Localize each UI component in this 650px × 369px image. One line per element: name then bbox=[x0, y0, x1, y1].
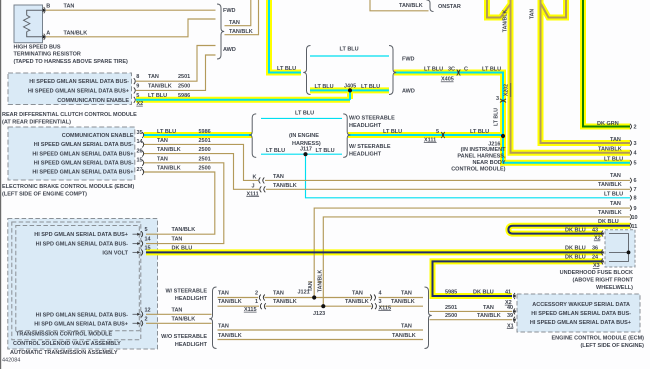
wire: TAN 2501 merged to ECM pin 40 bbox=[430, 310, 513, 312]
svg-text:2: 2 bbox=[255, 290, 258, 296]
svg-text:LT BLU: LT BLU bbox=[316, 148, 335, 154]
wire core: DK BLU 5985 from TCM pin 15 to fuse block pin 36 bbox=[146, 251, 602, 253]
wire: TAN 2501 from rear differential module pin 8 (AWD) bbox=[136, 46, 216, 82]
svg-text:HI SPD GMLAN SERIAL DATA BUS-: HI SPD GMLAN SERIAL DATA BUS- bbox=[36, 242, 129, 248]
connector X115 left, pin 1 bbox=[260, 303, 262, 309]
brace: ONSTAR stub end bbox=[427, 0, 434, 12]
svg-text:REAR DIFFERENTIAL CLUTCH CONTR: REAR DIFFERENTIAL CLUTCH CONTROL MODULE bbox=[2, 112, 137, 118]
svg-text:2500: 2500 bbox=[199, 166, 211, 172]
pin arrow: EBCM pin 27 bbox=[142, 169, 144, 175]
svg-text:9: 9 bbox=[634, 206, 637, 212]
pin arrow: EBCM pin 26 bbox=[142, 151, 144, 157]
svg-text:HI SPEED GMLAN SERIAL DATA BUS: HI SPEED GMLAN SERIAL DATA BUS+ bbox=[32, 170, 133, 176]
svg-text:27: 27 bbox=[137, 167, 143, 173]
svg-text:(LEFT SIDE OF ENGINE COMPT): (LEFT SIDE OF ENGINE COMPT) bbox=[2, 191, 87, 197]
svg-text:W/ STEERABLE: W/ STEERABLE bbox=[165, 289, 207, 295]
svg-text:36: 36 bbox=[592, 245, 598, 251]
wire: TAN from terminating resistor pin B to variant brace bbox=[46, 9, 216, 11]
svg-text:2500: 2500 bbox=[199, 147, 211, 153]
pin arrow: EBCM pin 35 bbox=[142, 132, 144, 138]
pin arrow: rear differential module pin 9 bbox=[134, 87, 136, 93]
svg-text:1: 1 bbox=[255, 299, 258, 305]
svg-text:HEADLIGHT: HEADLIGHT bbox=[175, 342, 208, 348]
svg-text:TAN: TAN bbox=[401, 323, 412, 329]
svg-text:12: 12 bbox=[145, 307, 151, 313]
svg-text:TAN/BLK: TAN/BLK bbox=[598, 210, 622, 216]
svg-text:2501: 2501 bbox=[199, 138, 211, 144]
svg-text:DK BLU: DK BLU bbox=[565, 254, 586, 260]
svg-text:DK GRN: DK GRN bbox=[597, 121, 619, 127]
svg-text:2500: 2500 bbox=[445, 313, 457, 319]
wire: EBCM pin 14 TAN 2501 to connector X111 pin K bbox=[144, 144, 258, 180]
svg-text:5986: 5986 bbox=[199, 129, 211, 135]
splice J123 bbox=[321, 304, 325, 308]
svg-text:LT BLU: LT BLU bbox=[148, 93, 167, 99]
svg-text:3: 3 bbox=[496, 96, 499, 102]
svg-text:TAN: TAN bbox=[483, 305, 494, 311]
svg-text:HEADLIGHT: HEADLIGHT bbox=[349, 123, 382, 129]
svg-text:TAN/BLK: TAN/BLK bbox=[392, 333, 416, 339]
svg-text:TAN: TAN bbox=[610, 173, 621, 179]
svg-text:TAN: TAN bbox=[530, 9, 536, 20]
svg-text:TAN/BLK: TAN/BLK bbox=[391, 299, 415, 305]
svg-text:TAN: TAN bbox=[610, 201, 621, 207]
svg-text:(TAPED TO HARNESS ABOVE SPARE: (TAPED TO HARNESS ABOVE SPARE TIRE) bbox=[14, 59, 129, 65]
svg-text:2: 2 bbox=[145, 316, 148, 322]
svg-text:9: 9 bbox=[136, 83, 139, 89]
wire core: LT BLU from variant brace through X405 / X202 to J216 bbox=[394, 73, 503, 137]
wire: TAN w/steerable row through X115 with J121 splice bbox=[218, 297, 259, 299]
svg-text:15: 15 bbox=[145, 245, 151, 251]
pin arrow: fuse block pin 43 bbox=[602, 233, 605, 235]
svg-text:TAN: TAN bbox=[157, 138, 168, 144]
svg-text:HI SPD GMLAN SERIAL DATA BUS+: HI SPD GMLAN SERIAL DATA BUS+ bbox=[34, 321, 128, 327]
splice J216 bbox=[501, 134, 505, 138]
svg-text:LT BLU: LT BLU bbox=[604, 192, 623, 198]
brace: headlight variant group left (TAN pair) bbox=[209, 287, 216, 349]
svg-text:TAN: TAN bbox=[64, 4, 75, 10]
svg-text:TRANSMISSION CONTROL MODULE: TRANSMISSION CONTROL MODULE bbox=[16, 332, 112, 338]
svg-text:FWD: FWD bbox=[402, 57, 415, 63]
svg-text:J: J bbox=[251, 183, 254, 189]
svg-text:7: 7 bbox=[634, 187, 637, 193]
svg-text:HI SPD GMLAN SERIAL DATA BUS-: HI SPD GMLAN SERIAL DATA BUS- bbox=[36, 312, 129, 318]
highlight band: DK GRN vertical to pin 2 bbox=[583, 0, 630, 127]
svg-text:5: 5 bbox=[634, 161, 637, 167]
wire: TAN/BLK pin 10 run with drop to J123 splice bbox=[323, 217, 630, 306]
highlight band: TAN vertical from top to pin 3 bbox=[541, 0, 631, 143]
tick mark on TAN drop bbox=[308, 281, 312, 283]
svg-text:2: 2 bbox=[634, 125, 637, 131]
svg-text:TAN/BLK: TAN/BLK bbox=[229, 29, 253, 35]
svg-text:J405: J405 bbox=[344, 84, 356, 90]
svg-text:COMMUNICATION ENABLE: COMMUNICATION ENABLE bbox=[62, 133, 134, 139]
svg-text:LT BLU: LT BLU bbox=[470, 129, 489, 135]
connector X115 left, pin 2 bbox=[259, 295, 261, 301]
svg-text:TAN/BLK: TAN/BLK bbox=[317, 270, 323, 293]
svg-text:TAN/BLK: TAN/BLK bbox=[172, 316, 196, 322]
svg-text:X202: X202 bbox=[504, 84, 510, 96]
wire: EBCM pin 27 TAN/BLK 2500 down to TCM pin 5 bbox=[144, 172, 215, 234]
wire: TCM pin 12 TAN to headlight-variant brace bbox=[146, 313, 212, 315]
svg-text:HEADLIGHT: HEADLIGHT bbox=[349, 152, 382, 158]
svg-text:CONTROL MODULE): CONTROL MODULE) bbox=[451, 167, 505, 173]
svg-text:HI SPEED GMLAN SERIAL DATA BUS: HI SPEED GMLAN SERIAL DATA BUS+ bbox=[530, 320, 631, 326]
svg-text:(LEFT SIDE OF ENGINE): (LEFT SIDE OF ENGINE) bbox=[580, 343, 644, 349]
svg-text:TAN/BLK: TAN/BLK bbox=[172, 227, 196, 233]
svg-text:AWD: AWD bbox=[223, 47, 236, 53]
svg-text:W/O STEERABLE: W/O STEERABLE bbox=[349, 116, 395, 122]
svg-text:(ABOVE RIGHT FRONT: (ABOVE RIGHT FRONT bbox=[573, 278, 634, 284]
svg-text:8: 8 bbox=[136, 74, 139, 80]
svg-text:HI SPEED GMLAN SERIAL DATA BUS: HI SPEED GMLAN SERIAL DATA BUS- bbox=[531, 311, 631, 317]
highlight band: TAN/BLK vertical from top (ONSTAR area) to pin 4 bbox=[487, 0, 511, 18]
svg-text:B: B bbox=[46, 4, 50, 10]
svg-text:LT BLU: LT BLU bbox=[424, 66, 443, 72]
highlight band: LT BLU 5986 run from EBCM pin 35 bbox=[144, 132, 252, 138]
svg-text:ONSTAR: ONSTAR bbox=[438, 4, 461, 10]
svg-text:ELECTRONIC BRAKE CONTROL MODUL: ELECTRONIC BRAKE CONTROL MODULE (EBCM) bbox=[2, 184, 134, 190]
wire: TAN/BLK 2500 from rear differential module pin 9 (AWD) bbox=[136, 55, 216, 90]
wire: LT BLU W/O steerable branch bbox=[261, 117, 342, 119]
wire core: DK BLU from fuse block pin 24 down to ECM pin 41 bbox=[433, 261, 603, 296]
svg-text:J123: J123 bbox=[313, 311, 325, 317]
highlight band: LT BLU J405 splice branch and 5986 run to rear differential module bbox=[310, 87, 389, 93]
wire: TCM pin 2 TAN/BLK to headlight-variant brace bbox=[146, 322, 212, 324]
pin arrow: rear differential module pin 8 bbox=[134, 78, 136, 84]
svg-text:39: 39 bbox=[507, 313, 513, 319]
pin end mark: right edge pin 6 bbox=[630, 178, 632, 183]
svg-text:TAN/BLK: TAN/BLK bbox=[598, 182, 622, 188]
svg-text:FWD: FWD bbox=[223, 8, 236, 14]
svg-text:LT BLU: LT BLU bbox=[383, 129, 402, 135]
svg-text:NEAR BODY: NEAR BODY bbox=[472, 160, 505, 166]
connector X202 pin 3 bbox=[500, 99, 506, 101]
wire: TAN/BLK stub to ONSTAR brace bbox=[370, 0, 429, 11]
svg-text:2500: 2500 bbox=[178, 83, 190, 89]
splice J117 bbox=[303, 152, 307, 156]
svg-text:15: 15 bbox=[137, 158, 143, 164]
svg-text:TAN/BLK: TAN/BLK bbox=[503, 10, 509, 33]
svg-text:(IN ENGINE: (IN ENGINE bbox=[289, 133, 319, 139]
svg-text:DK BLU: DK BLU bbox=[172, 245, 193, 251]
module box: rear differential clutch control module bbox=[8, 73, 132, 105]
svg-text:TAN: TAN bbox=[610, 137, 621, 143]
svg-text:TAN: TAN bbox=[308, 281, 314, 292]
svg-text:LT BLU: LT BLU bbox=[315, 84, 334, 90]
svg-text:3: 3 bbox=[634, 141, 637, 147]
svg-text:14: 14 bbox=[145, 237, 152, 243]
wire: LT BLU from J117 splice down and right to pin 8 bbox=[306, 154, 631, 198]
wire core: LT BLU vertical from top to J405 variant brace bbox=[269, 0, 301, 73]
tick mark on TAN/BLK drop bbox=[318, 281, 322, 283]
svg-text:A: A bbox=[46, 30, 50, 36]
pin end mark: right edge pin 7 bbox=[630, 187, 632, 192]
svg-text:LT BLU: LT BLU bbox=[157, 129, 176, 135]
pin end mark: right edge pin 5 bbox=[630, 160, 632, 165]
svg-text:AUTOMATIC TRANSMISSION ASSEMBL: AUTOMATIC TRANSMISSION ASSEMBLY bbox=[10, 350, 118, 356]
connector X115 right, pin 4 bbox=[370, 295, 372, 301]
svg-text:TAN: TAN bbox=[218, 290, 229, 296]
svg-text:W/O STEERABLE: W/O STEERABLE bbox=[161, 334, 207, 340]
brace: J405 group left bbox=[303, 46, 310, 95]
splice J405 bbox=[348, 88, 352, 92]
svg-text:IGN VOLT: IGN VOLT bbox=[102, 250, 128, 256]
wire: TAN w/o-steerable row bbox=[218, 329, 424, 331]
svg-text:TAN/BLK: TAN/BLK bbox=[273, 183, 297, 189]
svg-text:ACCESSORY WAKEUP SERIAL DATA: ACCESSORY WAKEUP SERIAL DATA bbox=[532, 302, 630, 308]
wire: LT BLU FWD branch of J405 group bbox=[310, 55, 389, 57]
wire: merged TAN bus rising off-page bbox=[225, 0, 251, 26]
wire core: LT BLU from J216 down and right to pin 5 bbox=[503, 136, 630, 163]
wire core: TAN from top, vertical to pin 3 with jog branch bbox=[541, 0, 631, 143]
svg-text:5: 5 bbox=[436, 129, 439, 135]
pin end mark: right edge pin 10 bbox=[630, 214, 632, 219]
svg-text:HI SPEED GMLAN SERIAL DATA BUS: HI SPEED GMLAN SERIAL DATA BUS- bbox=[29, 79, 129, 85]
svg-text:2501: 2501 bbox=[178, 74, 190, 80]
wire: TAN/BLK w/steerable row through X115 with J123 splice bbox=[218, 305, 260, 307]
wire: TAN/BLK 2500 merged to ECM pin 39 bbox=[430, 319, 513, 321]
svg-text:TAN/BLK: TAN/BLK bbox=[218, 333, 242, 339]
svg-text:TAN: TAN bbox=[157, 156, 168, 162]
wire: merged TAN/BLK bus rising off-page bbox=[225, 0, 259, 35]
brace: headlight variant group right (LT BLU) bbox=[343, 114, 350, 157]
connector X111 pin 5 bbox=[441, 132, 443, 138]
svg-text:HEADLIGHT: HEADLIGHT bbox=[175, 296, 208, 302]
resistor element inside terminating resistor bbox=[27, 10, 42, 37]
svg-text:J117: J117 bbox=[300, 147, 312, 153]
svg-text:TAN/BLK: TAN/BLK bbox=[148, 83, 172, 89]
pin arrow: TCM pin 14 bbox=[133, 243, 138, 245]
svg-text:442084: 442084 bbox=[2, 358, 20, 364]
wire: TAN pin 9 run with drop to J121 splice bbox=[314, 208, 630, 297]
svg-text:WHEELWELL): WHEELWELL) bbox=[596, 285, 633, 291]
module box: ECM bbox=[517, 294, 640, 332]
highlight band: LT BLU circuit (top run via X405/X202 to J216 and pin 5) bbox=[269, 0, 301, 73]
svg-text:TAN/BLK: TAN/BLK bbox=[157, 166, 181, 172]
svg-text:14: 14 bbox=[137, 139, 144, 145]
pin end mark: right edge pin 9 bbox=[630, 206, 632, 211]
svg-text:10: 10 bbox=[632, 215, 638, 221]
brace: headlight variant group left (LT BLU) bbox=[249, 114, 256, 157]
svg-text:LT BLU: LT BLU bbox=[482, 66, 501, 72]
svg-text:CONTROL SOLENOID VALVE ASSEMBL: CONTROL SOLENOID VALVE ASSEMBLY bbox=[13, 341, 121, 347]
pin arrow: ECM pin 40 bbox=[514, 310, 517, 312]
svg-text:C: C bbox=[464, 66, 468, 72]
connector X115 right, pin 3 bbox=[371, 303, 373, 309]
pin end mark: right edge pin 11 bbox=[630, 223, 632, 228]
svg-text:TAN/BLK: TAN/BLK bbox=[273, 299, 297, 305]
svg-text:HI SPEED GMLAN SERIAL DATA BUS: HI SPEED GMLAN SERIAL DATA BUS- bbox=[34, 142, 134, 148]
wire: EBCM pin 26 TAN/BLK 2500 to connector X111 pin J bbox=[144, 154, 259, 190]
svg-text:TAN: TAN bbox=[401, 290, 412, 296]
fuse block internal wiring bbox=[609, 234, 629, 262]
svg-text:LT BLU: LT BLU bbox=[494, 108, 500, 126]
svg-text:43: 43 bbox=[592, 228, 598, 234]
pin arrow: fuse block pin 36 bbox=[602, 251, 605, 253]
svg-text:TAN: TAN bbox=[273, 174, 284, 180]
module box: EBCM bbox=[8, 127, 135, 180]
pin arrow: TCM pin 15 bbox=[133, 251, 138, 253]
svg-text:ENGINE CONTROL MODULE (ECM): ENGINE CONTROL MODULE (ECM) bbox=[552, 335, 645, 341]
svg-text:8: 8 bbox=[634, 196, 637, 202]
svg-text:TAN/BLK: TAN/BLK bbox=[399, 3, 423, 9]
pin arrow: TCM pin 2 bbox=[133, 322, 138, 324]
left page border bbox=[0, 0, 2, 369]
wire core: LT BLU 5986 from EBCM pin 35 to headlight-variant brace bbox=[144, 134, 252, 136]
svg-text:TAN: TAN bbox=[172, 307, 183, 313]
svg-text:COMMUNICATION ENABLE: COMMUNICATION ENABLE bbox=[57, 98, 129, 104]
svg-text:TAN/BLK: TAN/BLK bbox=[598, 147, 622, 153]
svg-text:LT BLU: LT BLU bbox=[340, 46, 359, 52]
svg-text:HI SPD GMLAN SERIAL DATA BUS+: HI SPD GMLAN SERIAL DATA BUS+ bbox=[34, 232, 128, 238]
svg-text:6: 6 bbox=[634, 178, 637, 184]
svg-text:LT BLU: LT BLU bbox=[604, 157, 623, 163]
svg-text:2501: 2501 bbox=[445, 305, 457, 311]
svg-text:TAN: TAN bbox=[172, 237, 183, 243]
brace: headlight variant group right (TAN pair) bbox=[425, 287, 432, 349]
svg-text:TAN/BLK: TAN/BLK bbox=[218, 299, 242, 305]
pin arrow: ECM pin 39 bbox=[514, 319, 517, 321]
svg-text:26: 26 bbox=[137, 148, 143, 154]
svg-text:TAN: TAN bbox=[148, 74, 159, 80]
svg-text:K: K bbox=[253, 174, 257, 180]
svg-text:HI SPEED GMLAN SERIAL DATA BUS: HI SPEED GMLAN SERIAL DATA BUS+ bbox=[28, 88, 129, 94]
module box: high speed bus terminating resistor bbox=[14, 5, 43, 43]
svg-text:TAN/BLK: TAN/BLK bbox=[345, 299, 369, 305]
module box: control solenoid valve assembly (middle) bbox=[12, 222, 141, 340]
svg-text:(IN INSTRUMENT: (IN INSTRUMENT bbox=[461, 147, 507, 153]
svg-text:TAN: TAN bbox=[229, 20, 240, 26]
wire core: DK GRN vertical to pin 2 bbox=[583, 0, 630, 127]
svg-text:TAN: TAN bbox=[218, 323, 229, 329]
pin arrow: rear differential module pin 5 bbox=[134, 97, 136, 103]
svg-text:DK BLU: DK BLU bbox=[565, 228, 586, 234]
svg-text:HI SPEED GMLAN SERIAL DATA BUS: HI SPEED GMLAN SERIAL DATA BUS- bbox=[34, 161, 134, 167]
svg-text:2501: 2501 bbox=[199, 156, 211, 162]
svg-text:LT BLU: LT BLU bbox=[266, 148, 285, 154]
module box: underhood fuse block bbox=[605, 230, 635, 267]
svg-text:5986: 5986 bbox=[178, 93, 190, 99]
wire: TAN/BLK from X111 pin J to pin 7 bbox=[266, 188, 630, 190]
svg-text:LT BLU: LT BLU bbox=[277, 66, 296, 72]
pin end mark: right edge pin 2 bbox=[630, 124, 632, 129]
svg-text:TERMINATING RESISTOR: TERMINATING RESISTOR bbox=[14, 52, 81, 58]
highlight band: DK BLU net (pin 11 u-turn, fuse block 43/36/24, ECM 41) bbox=[508, 226, 630, 234]
svg-text:TAN: TAN bbox=[352, 290, 363, 296]
svg-text:LT BLU: LT BLU bbox=[295, 111, 314, 117]
svg-text:5985: 5985 bbox=[445, 290, 457, 296]
brace: J405 group right bbox=[389, 46, 396, 95]
svg-text:W/ STEERABLE: W/ STEERABLE bbox=[349, 144, 391, 150]
svg-text:DK BLU: DK BLU bbox=[473, 290, 494, 296]
pin arrow: ECM pin 41 bbox=[514, 295, 517, 297]
svg-text:3C: 3C bbox=[448, 66, 455, 72]
svg-text:TAN/BLK: TAN/BLK bbox=[64, 30, 88, 36]
wire core: LT BLU 5986 run to rear differential module pin 5 bbox=[136, 99, 350, 101]
svg-text:3: 3 bbox=[379, 299, 382, 305]
pin end mark: right edge pin 4 bbox=[630, 150, 632, 155]
pin arrow: TCM pin 12 bbox=[133, 313, 138, 315]
wire: TAN/BLK w/o-steerable row bbox=[218, 339, 424, 341]
wire core: LT BLU merged output to X111 pin 5 and J216 bbox=[348, 134, 503, 136]
pin arrow: EBCM pin 15 bbox=[142, 160, 144, 166]
svg-text:41: 41 bbox=[505, 290, 511, 296]
svg-text:TAN/BLK: TAN/BLK bbox=[157, 147, 181, 153]
pin arrow: EBCM pin 14 bbox=[142, 141, 144, 147]
wire core: TAN/BLK from top, jog and vertical to pin 4 bbox=[487, 0, 511, 18]
svg-text:11: 11 bbox=[632, 224, 638, 230]
connector X111 pin J bbox=[260, 186, 262, 192]
svg-text:DK BLU: DK BLU bbox=[598, 219, 619, 225]
connector X111 pin K bbox=[259, 177, 261, 183]
svg-text:(AT REAR DIFFERENTIAL): (AT REAR DIFFERENTIAL) bbox=[2, 119, 71, 125]
wire: LT BLU W/ steerable branch with J117 splice bbox=[261, 153, 342, 155]
svg-text:LT BLU: LT BLU bbox=[361, 84, 380, 90]
svg-text:PANEL HARNESS,: PANEL HARNESS, bbox=[457, 153, 506, 159]
svg-text:24: 24 bbox=[592, 254, 599, 260]
pin end mark: right edge pin 3 bbox=[630, 140, 632, 145]
svg-text:5: 5 bbox=[145, 227, 148, 233]
brace: FWD/AWD variant merge (top left) bbox=[217, 4, 224, 59]
svg-text:5: 5 bbox=[136, 93, 139, 99]
wire core: LT BLU AWD branch with J405 splice bbox=[310, 89, 389, 91]
svg-text:35: 35 bbox=[137, 130, 143, 136]
module box: transmission control module (inner) bbox=[16, 226, 140, 331]
module box: automatic transmission assembly (outer) bbox=[8, 219, 158, 350]
svg-text:AWD: AWD bbox=[402, 89, 415, 95]
svg-text:UNDERHOOD FUSE BLOCK: UNDERHOOD FUSE BLOCK bbox=[560, 270, 633, 276]
svg-text:HIGH SPEED BUS: HIGH SPEED BUS bbox=[14, 45, 61, 51]
svg-text:HI SPEED GMLAN SERIAL DATA BUS: HI SPEED GMLAN SERIAL DATA BUS+ bbox=[32, 151, 133, 157]
splice J121 bbox=[312, 295, 316, 299]
pin arrow: fuse block pin 24 bbox=[602, 260, 605, 262]
wire core: LT BLU drop from J405 splice bbox=[349, 90, 351, 99]
wire: EBCM pin 15 TAN 2501 down to TCM pin 14 bbox=[144, 163, 224, 244]
svg-text:TAN/BLK: TAN/BLK bbox=[477, 313, 501, 319]
connector X405 pins 3C/C bbox=[457, 70, 459, 76]
wire core: DK BLU pin 11 u-turn to fuse block pin 43 bbox=[508, 226, 630, 234]
pin arrow: TCM pin 5 bbox=[133, 233, 138, 235]
wire: TAN/BLK from terminating resistor pin A to variant brace bbox=[46, 19, 216, 37]
wire: TAN from X111 pin K to pin 6 bbox=[265, 179, 630, 181]
svg-text:TAN: TAN bbox=[273, 290, 284, 296]
pin end mark: right edge pin 8 bbox=[630, 195, 632, 200]
svg-text:DK BLU: DK BLU bbox=[565, 245, 586, 251]
